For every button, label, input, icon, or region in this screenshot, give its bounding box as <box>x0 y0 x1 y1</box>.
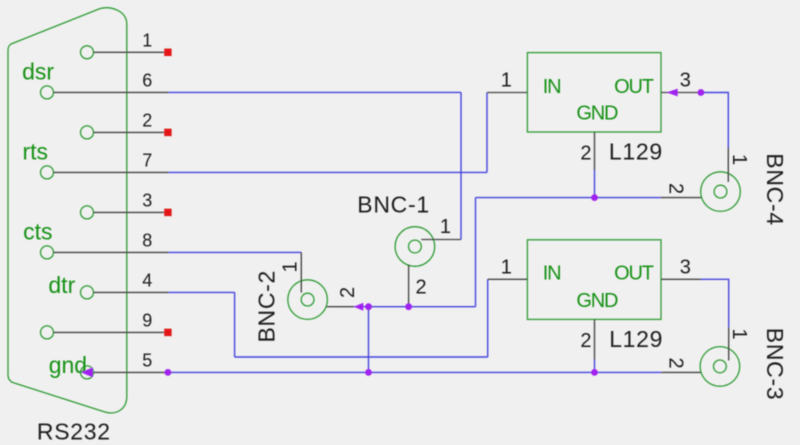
pin 7 wire <box>54 171 169 173</box>
svg-text:3: 3 <box>680 70 691 92</box>
junction dot U1 GND bus <box>591 194 598 201</box>
wire U1 GND to bus <box>594 170 596 198</box>
BNC-2 inner circle <box>301 293 314 306</box>
svg-text:4: 4 <box>142 271 152 291</box>
pin 3 circle <box>81 206 94 219</box>
U1 pin 1 wire <box>487 92 527 94</box>
pin 5 circle <box>81 366 94 379</box>
svg-text:dsr: dsr <box>22 58 54 84</box>
svg-text:1: 1 <box>728 154 750 165</box>
arrow at pin 5 gnd <box>81 367 93 377</box>
wire net dtr vertical down <box>234 292 236 357</box>
wire U1 OUT net <box>701 93 728 148</box>
U2 pin 1 wire <box>488 278 528 280</box>
BNC-1 inner circle <box>409 240 422 253</box>
pin 1 wire <box>94 51 165 53</box>
pin 9 unconnected red square <box>164 329 171 336</box>
svg-text:BNC-3: BNC-3 <box>762 328 788 401</box>
svg-text:L129: L129 <box>609 138 663 164</box>
svg-text:dtr: dtr <box>48 272 75 298</box>
pin 2 circle <box>81 126 94 139</box>
wire shield bus upper horizontal <box>476 197 661 199</box>
wire net rts horizontal <box>169 171 488 173</box>
wire net rts vertical to U1 IN <box>486 93 488 173</box>
svg-text:1: 1 <box>501 256 512 278</box>
pin 7 circle <box>41 166 54 179</box>
junction dot shield bus at gnd drop <box>365 303 372 310</box>
BNC-3 inner circle <box>714 360 727 373</box>
wire net dsr vertical to BNC-1 <box>460 92 462 239</box>
junction dot U1 OUT net <box>698 89 705 96</box>
pin 4 wire <box>94 291 169 293</box>
pin 6 circle <box>41 86 54 99</box>
wire net dtr vertical to U2 IN <box>487 279 489 357</box>
svg-text:IN: IN <box>543 263 561 285</box>
svg-text:6: 6 <box>142 71 152 91</box>
svg-text:1: 1 <box>142 31 152 51</box>
pin 2 unconnected red square <box>164 129 171 136</box>
svg-text:GND: GND <box>576 290 618 312</box>
pin 1 unconnected red square <box>164 49 171 56</box>
wire U2 GND to gnd bus <box>594 360 596 373</box>
pin 8 circle <box>41 246 54 259</box>
svg-text:cts: cts <box>23 218 52 244</box>
svg-text:L129: L129 <box>609 326 663 352</box>
pin 3 unconnected red square <box>164 209 171 216</box>
wire net cts horizontal <box>169 251 302 253</box>
svg-text:rts: rts <box>23 138 49 164</box>
BNC-4 pin 1 wire <box>727 148 729 183</box>
svg-text:2: 2 <box>416 276 427 298</box>
svg-text:2: 2 <box>337 287 359 298</box>
wire U2 OUT net <box>701 279 729 327</box>
svg-text:2: 2 <box>580 143 591 165</box>
U1 pin 2 wire GND <box>594 132 596 170</box>
svg-text:gnd: gnd <box>49 352 87 378</box>
BNC-3 pin 2 wire <box>661 371 700 373</box>
BNC-2 pin 1 wire <box>300 252 302 292</box>
svg-text:GND: GND <box>576 102 618 124</box>
pin 6 wire <box>54 91 169 93</box>
pin 9 circle <box>41 326 54 339</box>
op-amp U2 L129 box <box>527 240 661 320</box>
BNC-1 pin 2 wire <box>408 265 410 307</box>
svg-text:OUT: OUT <box>614 76 654 98</box>
junction dot U2 GND bus <box>591 369 598 376</box>
BNC-3 pin 1 wire <box>728 327 730 360</box>
BNC-3 outer circle <box>700 347 740 387</box>
svg-text:9: 9 <box>142 311 152 331</box>
wire net gnd bus horizontal <box>169 371 662 373</box>
BNC-1 outer circle <box>395 227 435 267</box>
wire shield bus vertical <box>475 198 477 307</box>
BNC-2 pin 2 wire <box>327 306 354 308</box>
BNC-4 inner circle <box>714 185 727 198</box>
svg-text:RS232: RS232 <box>37 418 111 444</box>
svg-text:1: 1 <box>280 261 302 272</box>
svg-text:2: 2 <box>142 111 152 131</box>
arrow at BNC-2 pin 2 <box>354 303 364 311</box>
svg-text:OUT: OUT <box>614 263 654 285</box>
svg-text:1: 1 <box>501 70 512 92</box>
pin 3 wire <box>94 211 165 213</box>
connector J1 RS232 DB9 outline <box>8 8 127 413</box>
svg-text:2: 2 <box>665 183 687 194</box>
pin 8 wire <box>54 251 169 253</box>
svg-text:8: 8 <box>142 231 152 251</box>
pin 5 wire <box>94 371 168 373</box>
wire gnd drop from shield bus <box>368 307 370 373</box>
svg-text:2: 2 <box>580 330 591 352</box>
svg-text:BNC-1: BNC-1 <box>357 192 430 218</box>
svg-text:BNC-2: BNC-2 <box>254 270 280 343</box>
wire net dtr horizontal <box>169 291 235 293</box>
svg-text:3: 3 <box>680 256 691 278</box>
op-amp U1 L129 box <box>527 53 661 132</box>
U2 pin 2 wire GND <box>594 319 596 359</box>
junction dot gnd near pin 5 <box>165 369 172 376</box>
pin 4 circle <box>81 286 94 299</box>
svg-text:BNC-4: BNC-4 <box>762 153 788 226</box>
BNC-4 pin 2 wire <box>661 197 701 199</box>
svg-text:2: 2 <box>665 358 687 369</box>
U2 pin 3 wire <box>661 278 701 280</box>
BNC-4 outer circle <box>701 172 741 212</box>
svg-text:1: 1 <box>728 329 750 340</box>
pin 1 circle <box>81 46 94 59</box>
arrow at U1 OUT <box>667 89 678 97</box>
junction dot BNC-1 pin 2 <box>405 303 412 310</box>
U1 pin 3 wire <box>661 92 701 94</box>
svg-text:IN: IN <box>543 76 561 98</box>
pin 2 wire <box>94 131 165 133</box>
svg-text:3: 3 <box>142 191 152 211</box>
BNC-2 outer circle <box>288 280 328 320</box>
wire net dsr horizontal <box>169 91 462 93</box>
svg-text:5: 5 <box>142 351 152 371</box>
BNC-1 pin 1 wire <box>421 239 461 241</box>
wire shield bus horizontal <box>354 306 476 308</box>
wire net dtr horizontal lower <box>235 356 488 358</box>
pin 9 wire <box>54 331 165 333</box>
svg-text:1: 1 <box>440 216 451 238</box>
junction dot gnd bus at drop <box>365 369 372 376</box>
svg-text:7: 7 <box>142 151 152 171</box>
